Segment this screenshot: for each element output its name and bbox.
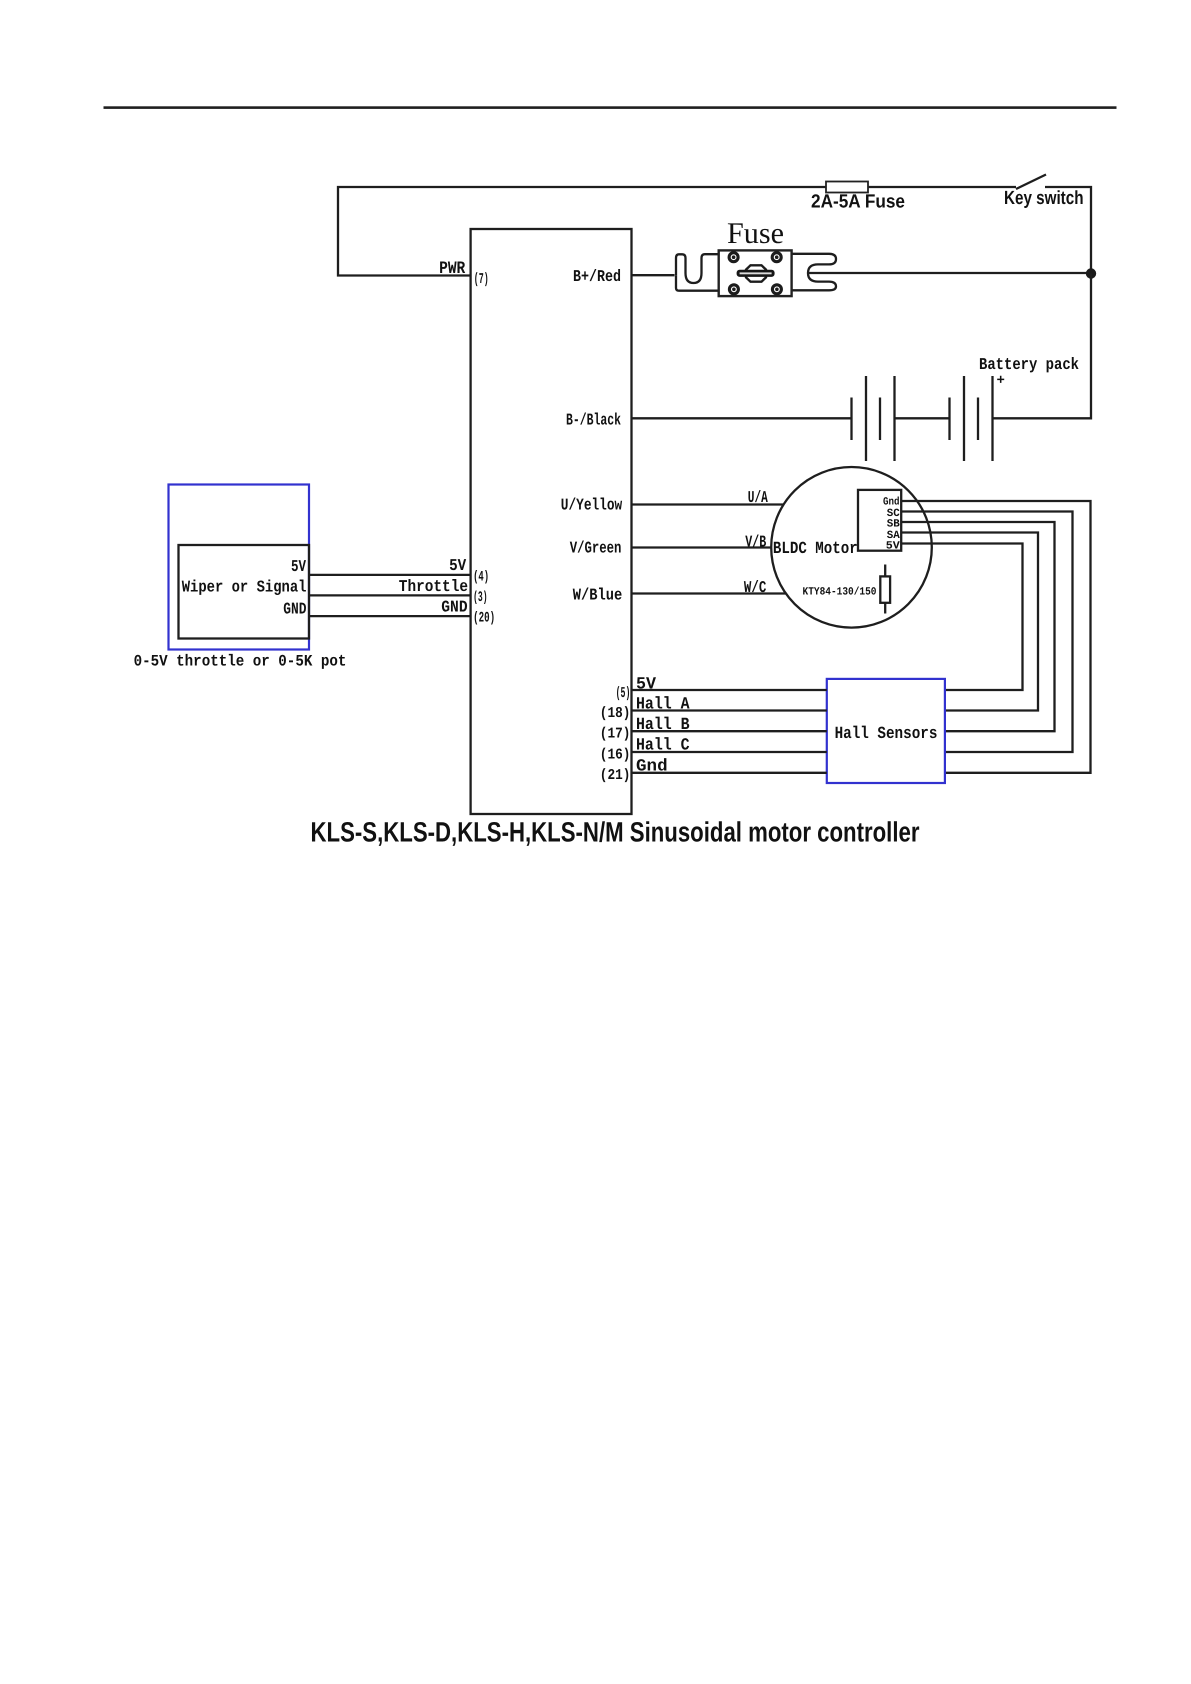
wire: U phase bbox=[632, 503, 784, 505]
pin label SC bbox=[887, 508, 900, 520]
svg-text:GND: GND bbox=[441, 597, 467, 616]
svg-text:B+/Red: B+/Red bbox=[573, 267, 621, 286]
pin label Gnd (motor) bbox=[883, 497, 900, 509]
svg-text:W/C: W/C bbox=[744, 578, 766, 597]
svg-text:B-/Black: B-/Black bbox=[566, 410, 621, 429]
wire: motor SA to hall A bbox=[901, 533, 1038, 711]
svg-text:(21): (21) bbox=[600, 767, 631, 784]
svg-text:PWR: PWR bbox=[439, 259, 466, 279]
wire: motor SB to hall B bbox=[901, 522, 1055, 731]
wire: throttle signal bbox=[309, 594, 471, 596]
svg-text:SB: SB bbox=[887, 519, 900, 531]
label: KTY84-130/150 bbox=[803, 586, 877, 598]
label: 2A-5A Fuse bbox=[811, 192, 905, 213]
svg-text:(3): (3) bbox=[473, 590, 488, 606]
svg-text:Key switch: Key switch bbox=[1004, 188, 1084, 209]
svg-text:V/Green: V/Green bbox=[570, 539, 622, 558]
svg-text:5V: 5V bbox=[449, 556, 466, 575]
svg-text:(16): (16) bbox=[600, 747, 631, 764]
wire: key switch to junction bbox=[1045, 187, 1091, 274]
svg-text:Throttle: Throttle bbox=[399, 577, 468, 596]
label: + polarity bbox=[997, 373, 1005, 389]
label: 0-5V throttle or 0-5K pot bbox=[134, 653, 347, 671]
label: BLDC Motor bbox=[773, 540, 858, 559]
svg-text:KLS-S,KLS-D,KLS-H,KLS-N/M Sinu: KLS-S,KLS-D,KLS-H,KLS-N/M Sinusoidal mot… bbox=[311, 817, 920, 848]
wire: controller 5V to hall module bbox=[632, 689, 827, 691]
pin label (7) bbox=[474, 271, 489, 288]
thermistor RT1 bbox=[880, 565, 890, 614]
wire: throttle GND bbox=[309, 615, 471, 617]
svg-text:Hall C: Hall C bbox=[636, 737, 690, 756]
svg-text:Hall A: Hall A bbox=[636, 695, 690, 714]
wire: controller Hall C bbox=[632, 751, 827, 753]
svg-text:Gnd: Gnd bbox=[883, 497, 900, 509]
label: Gnd (hall) bbox=[636, 758, 668, 777]
svg-text:5V: 5V bbox=[636, 675, 657, 694]
svg-text:Wiper or Signal: Wiper or Signal bbox=[182, 578, 307, 597]
svg-text:BLDC Motor: BLDC Motor bbox=[773, 540, 858, 559]
label: 5V (hall) bbox=[636, 675, 657, 694]
battery pack BT1 bbox=[852, 376, 993, 461]
label: Hall A bbox=[636, 695, 690, 714]
svg-text:(18): (18) bbox=[600, 705, 631, 722]
pin label (16) bbox=[600, 747, 631, 764]
pin label (5) bbox=[616, 685, 631, 702]
wire: motor 5V to hall 5V bbox=[901, 544, 1023, 691]
svg-text:Hall B: Hall B bbox=[636, 716, 690, 735]
caption: controller title bbox=[311, 817, 920, 848]
wire: throttle 5V bbox=[309, 574, 471, 576]
svg-text:V/B: V/B bbox=[745, 532, 766, 551]
wire: B+ to fuse F1 bbox=[632, 274, 675, 276]
svg-text:(4): (4) bbox=[473, 570, 489, 586]
svg-text:GND: GND bbox=[283, 599, 306, 618]
label: W/C bbox=[744, 578, 766, 597]
label: U/Yellow bbox=[561, 495, 622, 514]
wire: controller Hall A bbox=[632, 709, 827, 711]
label: Hall Sensors bbox=[835, 725, 938, 744]
fuse F2 (2A-5A) bbox=[826, 182, 868, 193]
svg-text:(20): (20) bbox=[473, 611, 495, 627]
pin label (4) bbox=[473, 570, 489, 586]
motor M1 (BLDC) bbox=[771, 467, 932, 628]
pin label SA bbox=[887, 530, 900, 542]
label: V/Green bbox=[570, 539, 622, 558]
wire: fuse F1 to junction bbox=[808, 272, 1091, 274]
wire: B- to battery bbox=[632, 417, 852, 419]
label: 5V (throttle box) bbox=[291, 557, 306, 576]
svg-text:W/Blue: W/Blue bbox=[573, 586, 622, 605]
key switch S1 bbox=[1016, 175, 1046, 190]
pin label 5V (motor) bbox=[886, 541, 900, 553]
label: Wiper or Signal bbox=[182, 578, 307, 597]
svg-text:5V: 5V bbox=[886, 541, 900, 553]
pin label (3) bbox=[473, 590, 488, 606]
wire: PWR pin to top rail bbox=[338, 187, 1016, 276]
pin label (21) bbox=[600, 767, 631, 784]
svg-text:2A-5A Fuse: 2A-5A Fuse bbox=[811, 192, 905, 213]
pin label (18) bbox=[600, 705, 631, 722]
svg-text:5V: 5V bbox=[291, 557, 306, 576]
svg-text:Hall Sensors: Hall Sensors bbox=[835, 725, 938, 744]
fuse F1 (ANL main fuse) bbox=[676, 250, 836, 296]
label: GND (controller left) bbox=[441, 597, 467, 616]
svg-text:U/Yellow: U/Yellow bbox=[561, 495, 622, 514]
wire: battery positive to junction bbox=[993, 274, 1092, 419]
label: GND (throttle box) bbox=[283, 599, 306, 618]
label: Throttle bbox=[399, 577, 468, 596]
svg-text:0-5V throttle or 0-5K pot: 0-5V throttle or 0-5K pot bbox=[134, 653, 347, 671]
pin label SB bbox=[887, 519, 900, 531]
pin label (17) bbox=[600, 726, 631, 743]
hall sensors module bbox=[827, 679, 945, 783]
wire: W phase bbox=[632, 592, 786, 594]
svg-text:U/A: U/A bbox=[748, 488, 768, 507]
wire: motor Gnd to hall Gnd bbox=[901, 501, 1091, 773]
label: V/B bbox=[745, 532, 766, 551]
label: B+/Red bbox=[573, 267, 621, 286]
svg-text:Fuse: Fuse bbox=[727, 217, 784, 250]
svg-text:Battery pack: Battery pack bbox=[979, 355, 1079, 374]
label: PWR bbox=[439, 259, 466, 279]
label: Hall B bbox=[636, 716, 690, 735]
label: 5V (controller left) bbox=[449, 556, 466, 575]
svg-text:+: + bbox=[997, 373, 1005, 389]
label: B-/Black bbox=[566, 410, 621, 429]
label: U/A bbox=[748, 488, 768, 507]
wire: controller Hall B bbox=[632, 730, 827, 732]
label: Battery pack bbox=[979, 355, 1079, 374]
label: Hall C bbox=[636, 737, 690, 756]
svg-text:KTY84-130/150: KTY84-130/150 bbox=[803, 586, 877, 598]
pin label (20) bbox=[473, 611, 495, 627]
throttle module box (blue) bbox=[169, 485, 310, 650]
svg-text:(17): (17) bbox=[600, 726, 631, 743]
throttle inner box bbox=[179, 545, 310, 639]
label: W/Blue bbox=[573, 586, 622, 605]
label: Fuse bbox=[727, 217, 784, 250]
svg-text:(7): (7) bbox=[474, 271, 489, 288]
wire: V phase bbox=[632, 546, 772, 548]
svg-text:Gnd: Gnd bbox=[636, 758, 668, 777]
junction node bbox=[1086, 268, 1096, 278]
wire: controller hall Gnd bbox=[632, 772, 827, 774]
controller U1 box bbox=[471, 229, 632, 814]
svg-text:(5): (5) bbox=[616, 685, 631, 702]
label: Key switch bbox=[1004, 188, 1084, 209]
wire: motor SC to hall C bbox=[901, 512, 1073, 753]
motor connector bbox=[858, 490, 901, 551]
